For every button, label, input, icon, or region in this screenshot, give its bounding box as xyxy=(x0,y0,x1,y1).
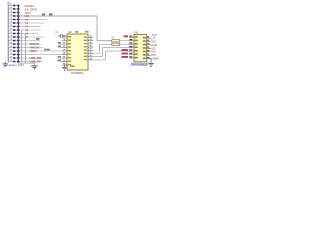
connector pin row 2 xyxy=(8,7,19,10)
IC U2 left pin 5 xyxy=(62,49,71,51)
svg-text:CHEN: CHEN xyxy=(151,57,158,61)
connector pin row 1 xyxy=(8,4,19,7)
connector pin row 12 xyxy=(8,42,19,45)
IC U3 right pin 2 xyxy=(143,40,151,42)
IC U2 right pin 6 xyxy=(84,52,93,54)
IC U2 left pin 1 xyxy=(62,35,71,37)
IC U3 left pin 2 xyxy=(129,39,138,41)
capacitor C1 xyxy=(56,31,68,38)
svg-text:GND: GND xyxy=(151,43,157,47)
IC U3 right pin 4 xyxy=(143,47,151,49)
svg-text:ESP8266MOD: ESP8266MOD xyxy=(131,62,148,66)
gnd vertical wire from row 9 xyxy=(25,34,27,64)
connector pin row 16 xyxy=(8,56,19,59)
svg-text:GIO: GIO xyxy=(25,14,30,18)
net label on wire row 14 xyxy=(44,49,50,51)
connector pin row 15 xyxy=(8,53,19,56)
wire row 15 xyxy=(20,54,63,56)
svg-text:USB_DP: USB_DP xyxy=(30,60,41,64)
wire U2 pin 6 to R2 xyxy=(93,44,113,53)
wire row 7 xyxy=(20,26,42,28)
IC U2 right pin 4 xyxy=(84,45,93,47)
svg-text:U2: U2 xyxy=(68,30,72,34)
connector pin row 6 xyxy=(8,21,19,24)
svg-text:J1: J1 xyxy=(7,1,10,5)
IC U3 right pin 3 xyxy=(143,43,151,45)
svg-text:IO0: IO0 xyxy=(151,46,156,50)
connector pin row 3 xyxy=(8,11,19,14)
connector pin row 11 xyxy=(8,39,19,42)
connector pin row 4 xyxy=(8,14,19,17)
IC U2 right pin 3 xyxy=(84,42,93,44)
svg-text:A7: A7 xyxy=(25,35,29,39)
svg-text:Header 17X2: Header 17X2 xyxy=(8,63,25,67)
wire row 12 xyxy=(20,43,42,45)
connector pin row 9 xyxy=(8,32,19,35)
IC U3 right pin 6 xyxy=(143,53,151,55)
svg-text:U3: U3 xyxy=(134,31,138,35)
wire row 8 xyxy=(20,29,42,31)
IC U2 top-right pin number xyxy=(85,31,89,33)
connector pin row 10 xyxy=(8,35,19,38)
IC U2 left pin 3 xyxy=(58,42,71,44)
wire U2 pin 7 to U3 pin 4 xyxy=(93,48,129,57)
ground GND2 xyxy=(31,66,38,69)
IC U3 left pin 7 xyxy=(129,56,138,58)
wire row 9 xyxy=(20,33,39,35)
IC U3 left pin 4 xyxy=(129,46,138,48)
wire row 11 xyxy=(20,40,41,42)
IC U3 top pin stub xyxy=(136,31,138,34)
IC U2 right pin 7 xyxy=(84,55,93,57)
IC U2 body xyxy=(67,34,88,70)
ground GND1 xyxy=(3,62,8,67)
wire row 10 xyxy=(20,36,45,38)
wire row 16 xyxy=(20,57,43,59)
IC U3 body xyxy=(134,35,147,62)
IC U2 left pin 6 xyxy=(62,53,71,55)
resistor R2 xyxy=(112,43,129,45)
IC U3 right pin 5 xyxy=(143,50,151,52)
wire row 5 xyxy=(20,19,48,21)
IC U3 right pin 1 xyxy=(143,36,151,38)
svg-text:3V3: 3V3 xyxy=(151,39,156,43)
connector J1 body xyxy=(7,4,9,62)
resistor R1 xyxy=(112,37,130,42)
IC U3 left pin 1 xyxy=(129,36,138,38)
net label TX xyxy=(42,14,45,16)
IC U2 left pin 9 xyxy=(62,63,71,65)
IC U2 right pin 2 xyxy=(84,39,93,41)
IC U2 right pin 5 xyxy=(84,48,93,50)
net label (U3 pin1) xyxy=(124,35,129,37)
connector pin row 8 xyxy=(8,28,19,31)
svg-text:VBAT: VBAT xyxy=(30,49,37,53)
IC U3 right pin 7 xyxy=(143,57,151,59)
connector pin row 14 xyxy=(8,49,19,52)
net label BOOT0 xyxy=(36,38,40,40)
bus-to-ground wire xyxy=(18,63,34,66)
IC U2 left pin 4 xyxy=(58,46,71,48)
wire row 13 xyxy=(20,47,44,49)
IC U2 ground GND4 xyxy=(62,65,67,70)
svg-text:RST: RST xyxy=(151,53,157,57)
IC U2 left pin 2 xyxy=(62,39,71,41)
svg-text:A2: A2 xyxy=(25,24,29,28)
IC U2 left pin 7 xyxy=(58,56,71,58)
IC U2 value mark xyxy=(75,31,78,33)
IC U3 left pin 6 xyxy=(129,53,138,55)
IC U2 left pin 8 xyxy=(58,60,71,62)
connector pin row 17 xyxy=(8,60,19,63)
net label (U3 left) xyxy=(122,56,129,58)
wire row 14 xyxy=(20,50,63,52)
connector right-column bus wire xyxy=(17,6,19,63)
IC U3 left pin 3 xyxy=(129,42,138,44)
IC U2 right pin 8 xyxy=(84,58,93,60)
svg-text:IO2: IO2 xyxy=(151,50,156,54)
wire net TX (long top wire) xyxy=(20,16,113,41)
connector pin row 5 xyxy=(8,18,19,21)
svg-text:A1: A1 xyxy=(25,21,29,25)
svg-text:A6: A6 xyxy=(25,31,29,35)
svg-text:STM32F1: STM32F1 xyxy=(71,71,84,75)
IC U2 inner GND pin name xyxy=(70,66,75,68)
connector pin row 13 xyxy=(8,46,19,49)
svg-text:A3: A3 xyxy=(25,28,29,32)
gnd vertical wire from row 8 xyxy=(21,30,23,63)
IC U3 left pin 5 xyxy=(129,49,138,51)
wire row 17 xyxy=(20,61,43,63)
IC U2 right pin 1 xyxy=(84,36,93,38)
wire U2 pin 8 to U3 pin 5 xyxy=(93,51,129,60)
net label (U3 left) xyxy=(122,49,129,51)
connector pin row 7 xyxy=(8,25,19,28)
net label RX xyxy=(49,14,52,16)
wire row 6 xyxy=(20,22,45,24)
antenna ANT1 xyxy=(151,34,157,39)
IC U3 part name highlight xyxy=(131,62,148,65)
svg-text:A0: A0 xyxy=(25,17,29,21)
net label (U3 left) xyxy=(122,53,129,55)
ground GND3 xyxy=(147,59,154,67)
